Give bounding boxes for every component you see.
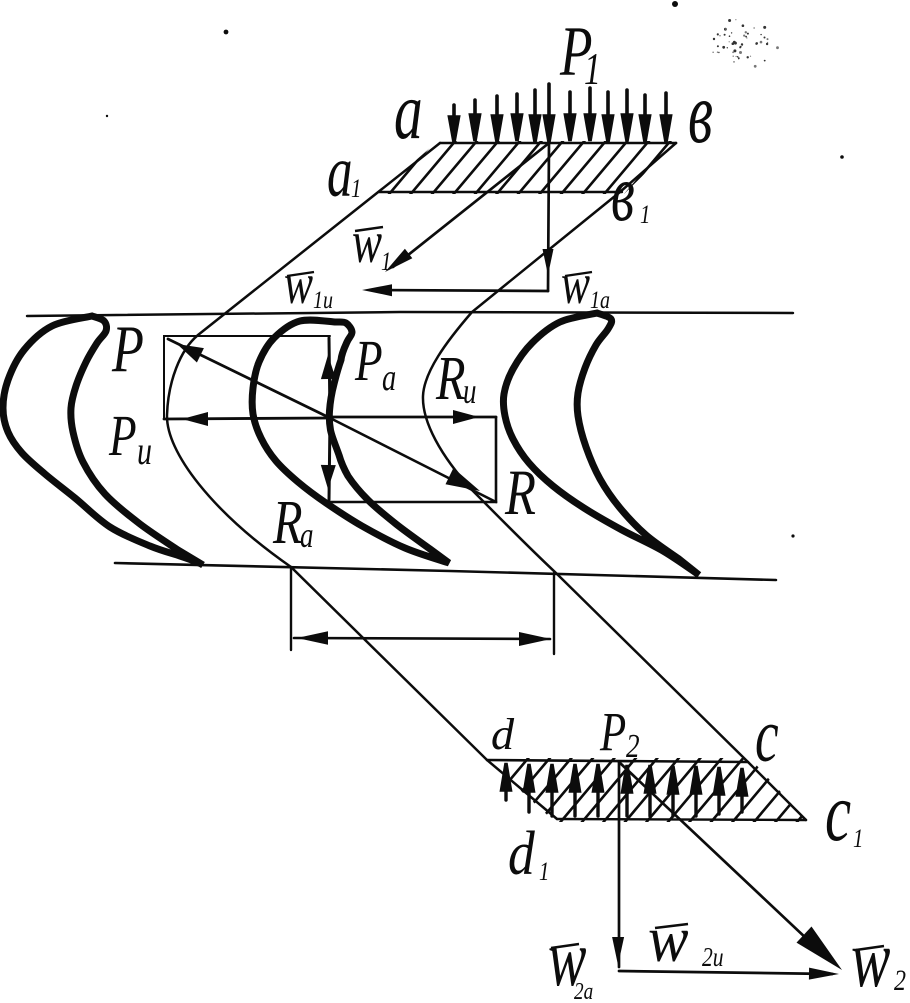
svg-text:w: w [352,210,382,276]
svg-text:w: w [284,252,313,316]
node a1b1 surface: bottom edge of pressure band [379,191,622,193]
svg-text:2: 2 [626,727,640,765]
svg-text:P: P [111,311,144,386]
vector R [330,418,496,502]
svg-text:1: 1 [584,44,601,94]
svg-text:c: c [825,765,851,859]
distributed load P2 arrows (upward) [502,763,747,816]
vector w1 [393,143,549,267]
svg-text:R: R [272,488,302,557]
svg-text:P: P [599,701,626,762]
wire flow line left: a through a1 into passage, out to d and d1 [167,143,557,819]
svg-text:в: в [611,149,635,238]
svg-text:1a: 1a [590,286,610,314]
vector Ra [329,418,330,500]
svg-text:u: u [137,428,152,473]
svg-text:w: w [648,902,688,976]
dimension line with arrows [294,638,550,639]
svg-text:d: d [508,818,535,888]
svg-text:1: 1 [539,858,549,887]
svg-text:a: a [394,66,423,156]
hatching of top band [366,139,672,196]
svg-text:1: 1 [351,175,361,204]
blade row upper boundary line [27,312,793,316]
svg-text:в: в [688,64,713,161]
vector Pa [329,338,330,418]
svg-text:R: R [435,344,465,413]
hatching of bottom band [472,756,853,825]
svg-text:a: a [382,357,396,399]
svg-text:c: c [755,695,779,778]
svg-text:1u: 1u [313,286,333,314]
distributed load P1 arrows [450,84,671,142]
speckle noise cluster top right [713,19,779,68]
svg-text:1: 1 [853,825,863,854]
stray scan dots [106,1,844,538]
svg-text:w: w [561,252,590,316]
vector Ru [330,416,496,419]
svg-text:2a: 2a [574,978,593,1003]
blade 3 [503,313,699,575]
svg-text:d: d [491,710,515,759]
vector w2 [619,762,825,956]
dimension vertical right [553,573,555,654]
node dc surface: top edge of exit band [487,760,748,762]
vector w1a [548,143,549,291]
svg-text:u: u [463,371,476,411]
vector P [168,339,330,418]
blade 2 [252,320,449,563]
node ab surface: top edge of pressure band [440,142,676,145]
svg-text:P: P [354,330,382,394]
dimension vertical left [290,567,292,650]
node d1c1 surface: bottom edge of exit band [557,819,806,820]
force rectangle P (left) [164,336,330,419]
svg-text:P: P [108,405,136,469]
svg-text:2u: 2u [702,943,724,973]
svg-text:w: w [851,914,891,1003]
force rectangle R (right) [330,417,496,502]
vector Pu [164,418,330,419]
svg-text:a: a [327,131,353,212]
svg-text:1: 1 [640,201,650,230]
svg-text:1: 1 [381,248,391,277]
blade 1 [3,316,203,565]
svg-text:a: a [300,515,313,555]
vector w2a [618,762,621,967]
svg-text:R: R [504,456,536,528]
vector w2u [619,971,832,974]
vector w1u [370,290,548,291]
wire flow line right: B through B1 into passage, out to c and c1 [423,143,806,820]
svg-text:2: 2 [894,963,906,996]
blade row lower boundary line [115,563,776,580]
